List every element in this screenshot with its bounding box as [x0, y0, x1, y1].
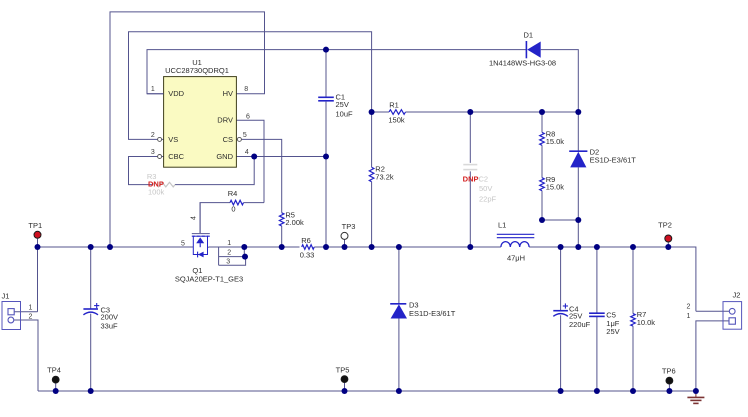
svg-text:1: 1: [227, 240, 231, 247]
node C4/ground rail junction: [558, 388, 564, 394]
node D3/ground rail junction: [396, 388, 402, 394]
wire output rail L1 to J2 pin 2: [529, 247, 696, 311]
node TP3/rail junction: [342, 244, 348, 250]
wire VDD rail (VDD pin up and across to D1): [147, 50, 526, 94]
svg-text:220uF: 220uF: [569, 320, 591, 329]
resistor R5 2.00k: [279, 210, 304, 227]
diode D3 ES1D-E3/61T: [390, 301, 455, 319]
node C3/input rail junction: [88, 244, 94, 250]
svg-text:5: 5: [181, 241, 185, 248]
svg-text:4: 4: [245, 149, 249, 156]
test point TP1: [28, 221, 42, 238]
node Q1 source junction a: [241, 244, 247, 250]
resistor R1 150k: [388, 100, 405, 124]
wire HV loop (HV pin to input rail): [110, 12, 265, 247]
node VS divider junction (R1/R2): [369, 109, 375, 115]
wire Q1 source rail to R6: [208, 246, 300, 248]
wire R2 branch: [371, 112, 373, 247]
resistor R4 0: [228, 189, 244, 213]
wire rail R6 to L1: [314, 246, 501, 248]
svg-text:0: 0: [231, 204, 235, 213]
op-amp U1 UCC28730QDRQ1 body: [164, 58, 237, 167]
svg-text:SQJA20EP-T1_GE3: SQJA20EP-T1_GE3: [175, 275, 243, 284]
resistor R2 73.2k: [369, 165, 394, 182]
svg-text:2: 2: [687, 304, 691, 311]
svg-text:DNP: DNP: [463, 174, 479, 183]
wire R7 branch: [632, 247, 634, 391]
node C2/rail junction: [467, 244, 473, 250]
svg-text:ES1D-E3/61T: ES1D-E3/61T: [409, 309, 456, 318]
svg-text:TP2: TP2: [658, 221, 672, 230]
wire J1 pin 1 stub: [14, 311, 38, 313]
svg-text:200V: 200V: [101, 313, 119, 322]
svg-text:R4: R4: [228, 189, 238, 198]
node TP4/ground rail junction: [53, 388, 59, 394]
svg-text:3: 3: [151, 149, 155, 156]
wire C3 branch: [90, 247, 92, 391]
svg-text:50V: 50V: [479, 184, 492, 193]
U1 pin 4 GND: [216, 149, 249, 161]
node C5/output rail junction: [594, 244, 600, 250]
node C3/ground rail junction: [88, 388, 94, 394]
svg-text:73.2k: 73.2k: [375, 172, 394, 181]
test point TP5: [336, 365, 350, 382]
svg-text:TP5: TP5: [336, 365, 350, 374]
svg-text:1: 1: [687, 313, 691, 320]
test point TP6: [662, 366, 676, 384]
wire input rail left: [38, 246, 194, 248]
Q1 pin 2 label (source): [227, 250, 231, 257]
ground symbol (power ground): [687, 391, 704, 403]
node GND pin/R3 junction: [251, 154, 257, 160]
svg-text:VS: VS: [168, 135, 178, 144]
svg-text:L1: L1: [498, 221, 506, 230]
svg-text:1: 1: [151, 86, 155, 93]
svg-text:10.0k: 10.0k: [637, 318, 656, 327]
wire VS loop (VS pin to R1/R2 divider): [129, 32, 372, 140]
svg-text:CBC: CBC: [168, 152, 184, 161]
Q1 pin 1 label (source): [227, 240, 231, 247]
svg-text:TP3: TP3: [342, 222, 356, 231]
svg-text:UCC28730QDRQ1: UCC28730QDRQ1: [165, 66, 229, 75]
svg-text:C2: C2: [479, 174, 489, 183]
svg-text:100k: 100k: [148, 187, 165, 196]
J1 pin 2 label: [29, 314, 33, 321]
node R1/R8 junction: [539, 109, 545, 115]
wire Q1 source pin bracket: [219, 247, 246, 265]
wire R8/R9 branch: [542, 112, 578, 220]
U1 pin 1 VDD: [147, 86, 185, 98]
resistor R7 10.0k: [631, 310, 656, 327]
wire R5 bottom: [281, 226, 283, 247]
capacitor C5 1uF: [589, 310, 620, 336]
U1 pin 2 VS: [151, 132, 178, 144]
wire J1 pin 2 to bottom rail: [14, 320, 38, 391]
wire D1 cathode to D2 node: [541, 50, 579, 112]
node GND/C1 junction: [323, 154, 329, 160]
Q1 pin 3 label (source): [226, 258, 230, 265]
svg-text:15.0k: 15.0k: [546, 137, 565, 146]
svg-text:5: 5: [243, 132, 247, 139]
svg-text:D1: D1: [524, 30, 534, 39]
U1 pin 3 CBC: [151, 149, 185, 161]
node R5/rail junction: [279, 244, 285, 250]
svg-text:33uF: 33uF: [101, 322, 119, 331]
J2 pin 1 label: [687, 313, 691, 320]
wire TP2 stub: [667, 242, 669, 247]
capacitor C2 22pF DNP (not populated): [463, 165, 497, 204]
node R9/D2 junction: [575, 217, 581, 223]
wire R1 row right segment: [406, 111, 579, 113]
node J2/ground junction: [693, 388, 699, 394]
svg-text:2: 2: [227, 250, 231, 257]
resistor R3 DNP 100k (not populated): [147, 172, 175, 196]
svg-text:1: 1: [29, 305, 33, 312]
J2 pin 2 label: [687, 304, 691, 311]
svg-text:TP4: TP4: [47, 366, 61, 375]
node C5/ground rail junction: [594, 388, 600, 394]
svg-text:HV: HV: [223, 89, 233, 98]
J1 pin 1 label: [29, 305, 33, 312]
wire D3 branch: [398, 247, 400, 391]
node Q1 source junction b: [242, 254, 248, 260]
svg-text:8: 8: [244, 86, 248, 93]
diode D1 1N4148WS-HG3-08: [489, 30, 556, 67]
svg-text:6: 6: [246, 114, 250, 121]
node TP6/ground rail junction: [666, 388, 672, 394]
svg-text:1N4148WS-HG3-08: 1N4148WS-HG3-08: [489, 59, 556, 68]
node R9 bottom junction: [539, 217, 545, 223]
transistor Q1 SQJA20EP-T1_GE3 (n-channel MOSFET): [175, 203, 243, 284]
capacitor C1 10uF: [318, 92, 353, 118]
node R7/output rail junction: [630, 244, 636, 250]
U1 pin 8 HV: [223, 86, 249, 98]
svg-text:2: 2: [29, 314, 33, 321]
resistor R6 0.33: [300, 236, 315, 260]
wire bottom ground rail: [38, 390, 696, 392]
inductor L1 47uH: [497, 221, 535, 263]
wire R1 row left segment: [372, 111, 389, 113]
wire C5 branch: [596, 247, 598, 391]
svg-text:VDD: VDD: [168, 89, 184, 98]
node R7/ground rail junction: [630, 388, 636, 394]
svg-text:15.0k: 15.0k: [546, 183, 565, 192]
test point TP3: [341, 222, 355, 239]
wire R4 row and gate drop: [200, 203, 264, 234]
node TP5/ground rail junction: [342, 388, 348, 394]
wire TP5 stub: [344, 383, 346, 391]
svg-text:2.00k: 2.00k: [285, 218, 304, 227]
wire GND pin row: [236, 156, 326, 158]
svg-text:DRV: DRV: [217, 116, 233, 125]
svg-text:47μH: 47μH: [507, 253, 525, 262]
capacitor C4 220uF polarized: [553, 303, 590, 329]
svg-text:2: 2: [151, 132, 155, 139]
svg-text:4: 4: [191, 216, 198, 220]
node R1/C2 junction: [467, 109, 473, 115]
svg-text:150k: 150k: [388, 115, 405, 124]
svg-text:TP1: TP1: [28, 221, 42, 230]
node D3/rail junction: [396, 244, 402, 250]
Q1 pin 4 label (gate): [191, 216, 198, 220]
node HV loop/input rail junction: [107, 244, 113, 250]
svg-text:3: 3: [226, 258, 230, 265]
test point TP2: [658, 221, 672, 242]
wire TP3 stub: [344, 240, 346, 248]
node D2/output rail junction: [575, 244, 581, 250]
wire J2 pin 1 to bottom rail: [696, 321, 729, 391]
node R2/rail junction: [369, 244, 375, 250]
node C1/rail junction: [323, 244, 329, 250]
resistor R8 15.0k: [540, 130, 565, 147]
svg-text:J1: J1: [2, 292, 10, 301]
svg-text:GND: GND: [216, 152, 233, 161]
svg-text:0.33: 0.33: [300, 250, 315, 259]
svg-text:25V: 25V: [336, 100, 349, 109]
svg-text:25V: 25V: [606, 327, 619, 336]
node C4/output rail junction: [558, 244, 564, 250]
node D1/D2 junction: [575, 109, 581, 115]
svg-text:TP6: TP6: [662, 366, 676, 375]
wire DRV to R4: [236, 120, 264, 202]
resistor R9 15.0k: [540, 175, 565, 192]
wire C1 branch: [325, 50, 327, 247]
svg-text:ES1D-E3/61T: ES1D-E3/61T: [590, 156, 637, 165]
wire C4 branch: [560, 247, 562, 391]
wire TP6 stub: [668, 384, 670, 391]
Q1 pin 5 label (drain): [181, 241, 185, 248]
wire R3 right to GND pin node: [175, 157, 254, 185]
connector J1: [2, 292, 21, 330]
U1 pin 6 DRV: [217, 114, 250, 125]
wire TP1 drop to J1 pin 1: [37, 239, 39, 312]
svg-text:CS: CS: [223, 135, 233, 144]
diode D2 ES1D-E3/61T: [569, 147, 636, 167]
node TP2/output rail junction: [665, 244, 671, 250]
svg-text:22pF: 22pF: [479, 195, 497, 204]
node TP1/input rail junction: [35, 244, 41, 250]
wire D2 branch: [577, 112, 579, 247]
wire CS to R5: [236, 139, 281, 212]
U1 pin 5 CS: [223, 132, 247, 144]
connector J2: [723, 291, 742, 330]
svg-text:10uF: 10uF: [336, 110, 354, 119]
wire CBC loop through R3: [129, 157, 164, 185]
wire TP4 stub: [55, 383, 57, 391]
svg-text:J2: J2: [733, 291, 741, 300]
wire J2 pin 2 stub: [696, 310, 729, 312]
svg-text:R1: R1: [389, 100, 399, 109]
svg-text:R6: R6: [301, 236, 311, 245]
node VDD/C1 junction: [323, 47, 329, 53]
wire C2 branch (DNP): [469, 112, 471, 247]
test point TP4: [47, 366, 61, 383]
capacitor C3 33uF polarized: [83, 303, 118, 331]
